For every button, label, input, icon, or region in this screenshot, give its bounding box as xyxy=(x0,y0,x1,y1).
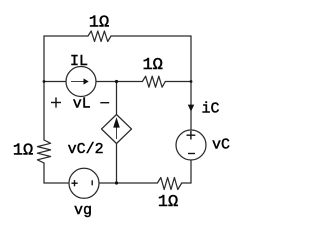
arrow of current source IL xyxy=(71,80,84,83)
svg-text:1Ω: 1Ω xyxy=(142,56,162,75)
wire left upper xyxy=(43,36,45,140)
wire right to vC xyxy=(190,82,192,131)
resistor R2 1Ω left xyxy=(37,140,50,163)
svg-text:vC/2: vC/2 xyxy=(68,141,104,158)
wire right upper xyxy=(190,36,192,82)
polarity - inside vC (horizontal bar) xyxy=(188,153,195,155)
junction node bottom xyxy=(115,181,118,184)
resistor R4 1Ω bottom xyxy=(157,178,181,190)
wire left lower xyxy=(43,163,45,183)
polarity - inside vg (rotated bar) xyxy=(91,180,93,185)
junction node middle xyxy=(115,80,118,83)
svg-text:vg: vg xyxy=(74,202,92,219)
wire node column upper xyxy=(116,82,118,115)
polarity + inside vC xyxy=(187,134,196,136)
wire bottom center xyxy=(99,182,157,184)
label + of vL (cross) xyxy=(51,102,61,104)
wire bottom left xyxy=(44,182,69,184)
dependent source U3 vC/2 diamond xyxy=(102,115,132,144)
voltage source U4 vg circle xyxy=(69,168,99,198)
wire bottom right xyxy=(182,182,191,184)
svg-text:1Ω: 1Ω xyxy=(13,142,33,161)
resistor R3 1Ω middle xyxy=(142,76,165,87)
wire middle row center xyxy=(96,81,142,83)
wire top-left segment xyxy=(44,35,88,37)
voltage source U2 vC circle xyxy=(176,130,206,160)
arrow inside diamond vC/2 xyxy=(115,127,118,139)
wire middle row left xyxy=(44,81,66,83)
arrow iC on right wire xyxy=(188,105,194,112)
wire node column lower xyxy=(116,144,118,184)
svg-text:1Ω: 1Ω xyxy=(89,14,109,33)
wire right lower xyxy=(190,160,192,183)
svg-text:iC: iC xyxy=(201,101,219,118)
svg-text:vL: vL xyxy=(73,96,91,113)
svg-text:IL: IL xyxy=(70,53,88,70)
wire middle row right xyxy=(165,81,191,83)
current source U1 IL circle xyxy=(66,67,96,97)
polarity + inside vg xyxy=(71,182,77,184)
junction node right xyxy=(190,80,193,83)
junction node left xyxy=(43,80,46,83)
label - of vL (bar) xyxy=(100,102,109,104)
svg-text:1Ω: 1Ω xyxy=(158,193,178,212)
wire top-right segment xyxy=(111,35,191,37)
svg-text:vC: vC xyxy=(212,137,230,154)
resistor R1 1Ω top xyxy=(88,31,111,42)
